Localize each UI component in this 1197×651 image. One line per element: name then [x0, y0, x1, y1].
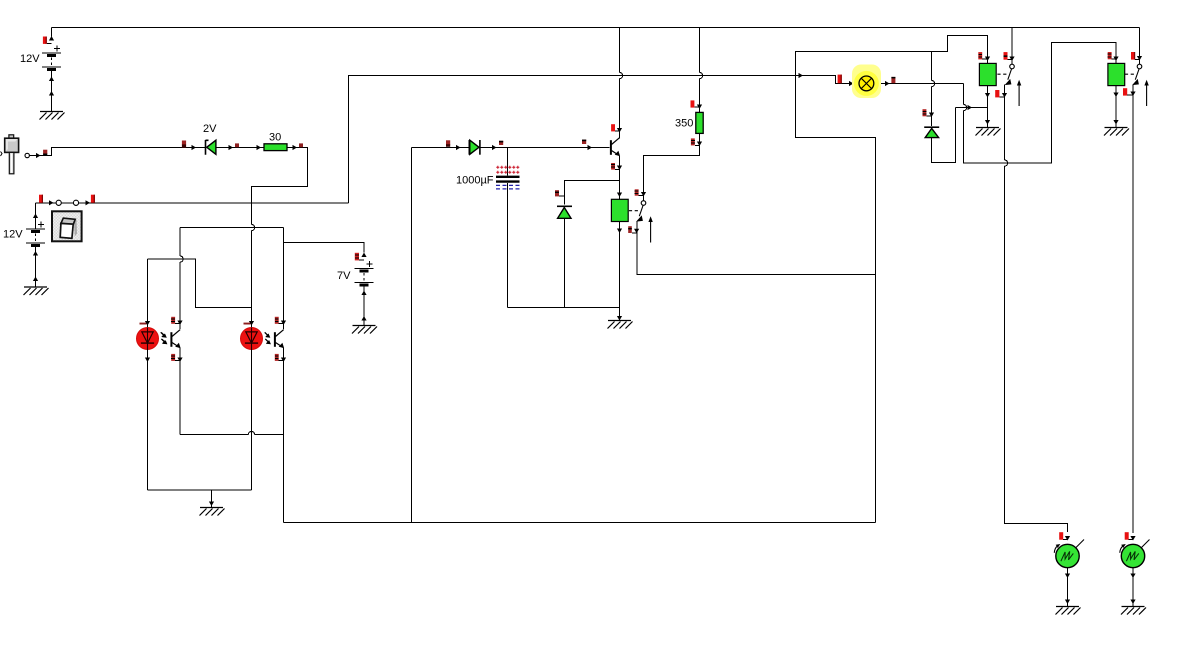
resistor R2 350	[696, 112, 703, 133]
wire: emitter bus to base feeder riser	[284, 522, 876, 524]
current arrow	[145, 358, 150, 363]
wire: PT2 collector drop	[283, 228, 285, 330]
current arrow	[49, 77, 54, 82]
wire: battery B1 negative to ground	[51, 71, 53, 112]
probe red (lamp left)	[838, 75, 842, 84]
current arrow	[1130, 536, 1135, 541]
current arrow	[281, 358, 286, 363]
diode D2 (pointing right)	[469, 140, 480, 155]
probe dark red small	[299, 143, 303, 147]
probe striped (zener2)	[923, 109, 932, 116]
ground (motor2)	[1121, 607, 1146, 615]
wire: R350 from top rail with hop over y75	[700, 28, 703, 113]
current arrow	[1113, 57, 1118, 62]
wire: rail riser to y75 feeder	[349, 76, 796, 203]
open terminal circle (hammer row)	[25, 153, 29, 157]
hammer input device	[1, 135, 19, 174]
relay coil RL2	[979, 63, 996, 85]
wire: battery B2 positive up to rail	[35, 203, 37, 229]
probe striped (7V)	[355, 253, 364, 261]
relay coil RL3	[1108, 63, 1125, 85]
wire: motor2 to ground	[1132, 568, 1134, 607]
current arrow	[209, 502, 214, 507]
current arrow	[617, 316, 622, 321]
wire: resistor 30 to LED branch	[252, 148, 308, 203]
capacitor C1 1000uF	[496, 148, 520, 308]
wire: lamp row down to relay3 feeder with hop over y107	[964, 43, 1117, 164]
svg-text:350: 350	[675, 118, 693, 130]
probe red (relay3 contact)	[1123, 88, 1133, 95]
wire: zener2 bottom link	[932, 108, 956, 163]
svg-text:12V: 12V	[3, 229, 23, 241]
current arrow	[885, 81, 890, 86]
zener diode Z1	[557, 206, 572, 218]
probe dark red (hammer row)	[43, 150, 47, 155]
wire: Q1 emitter down to coil1	[619, 156, 621, 200]
current arrow (battery B1 top)	[49, 36, 54, 41]
svg-text:30: 30	[269, 132, 281, 144]
current arrow	[985, 57, 990, 62]
probe striped (coil2 top)	[978, 52, 987, 59]
switch terminal circle	[56, 200, 61, 205]
current arrow	[49, 200, 54, 205]
probe striped (PT2 collector)	[275, 317, 284, 324]
ground (coil3)	[1104, 128, 1129, 136]
current arrow	[361, 316, 366, 321]
current arrow	[985, 120, 990, 125]
wire: LED cathodes to ground rail	[148, 489, 252, 491]
diode D1 2V (pointing left)	[206, 140, 216, 155]
wire: ground rail under coil1	[508, 307, 620, 309]
current arrow	[177, 321, 182, 326]
battery B1 12V	[42, 46, 61, 70]
current arrow	[1130, 92, 1135, 97]
probe red (motor2)	[1125, 532, 1133, 540]
wire: LED2 drop with hop over y227 (junction at rail)	[252, 203, 255, 328]
current arrow	[617, 193, 622, 198]
wire: battery B2 rail with switch	[36, 202, 349, 204]
current arrow (junction)	[799, 73, 804, 78]
wire: feeder up-branch to relay2 coil	[796, 36, 988, 76]
wire: PT2 emitter down	[283, 348, 285, 523]
current arrow	[281, 321, 286, 326]
probe striped (R350 bottom)	[691, 138, 700, 145]
probe red (rail right)	[91, 195, 95, 203]
probe striped (coil3 top)	[1108, 52, 1116, 59]
current arrow	[1137, 56, 1142, 61]
ground (motor1)	[1056, 607, 1081, 615]
ground (battery B1)	[40, 112, 65, 120]
zener diode Z2	[924, 127, 939, 137]
wire: battery B1 positive to top rail	[51, 28, 53, 37]
wire: motor1 to ground	[1067, 568, 1069, 607]
wire: PT collectors link	[180, 227, 284, 229]
svg-text:1000µF: 1000µF	[456, 175, 494, 187]
current arrow	[192, 145, 197, 150]
wire: LED1 cathode down	[147, 350, 149, 491]
probe striped (Q1 emitter)	[611, 163, 619, 170]
probe red (R350 top)	[691, 100, 700, 107]
current arrow	[1002, 93, 1007, 98]
relay coil RL1	[611, 199, 628, 221]
wire: LED1 feeder	[148, 259, 252, 308]
probe red (motor1)	[1059, 532, 1067, 540]
wire: PT emitters link with hop over LED2 wire	[180, 432, 284, 435]
motor M1	[1054, 540, 1084, 568]
wire: coil3 to ground	[1115, 86, 1117, 127]
probe dark red (zener1)	[555, 190, 565, 196]
current arrow	[1065, 574, 1070, 579]
wire: Q1 collector riser with hop over y75	[620, 28, 623, 139]
probe striped (PT1 collector)	[171, 317, 180, 324]
ground (7V battery)	[352, 326, 377, 334]
transistor Q1 npn	[611, 138, 620, 157]
motor M2	[1120, 540, 1150, 568]
current arrow	[456, 145, 461, 150]
current arrow	[1065, 600, 1070, 605]
wire: diode to resistor 30	[216, 147, 264, 149]
current arrow	[257, 145, 262, 150]
current arrow	[1065, 536, 1070, 541]
wire: relay2 contact down to motor1 with hop over y163	[1005, 85, 1068, 533]
wire: feeder down-branch to big loop	[796, 76, 876, 523]
probe dark red small	[235, 143, 239, 147]
wire: relay3 contact down to motor2	[1132, 85, 1134, 534]
svg-text:7V: 7V	[337, 270, 351, 282]
probe dark red	[446, 140, 450, 147]
current arrow	[229, 145, 234, 150]
probe red (relay2 contact)	[995, 90, 1004, 97]
battery B2 12V	[26, 222, 45, 246]
svg-text:12V: 12V	[20, 53, 40, 65]
current arrow	[1113, 93, 1118, 98]
current arrow	[1113, 120, 1118, 125]
ground (coil2)	[976, 128, 1001, 136]
current arrow	[634, 229, 639, 234]
probe striped (PT1 emitter)	[171, 354, 180, 361]
svg-text:2V: 2V	[203, 123, 217, 135]
probe red (relay2 common)	[1004, 52, 1013, 60]
rocker switch icon	[52, 211, 82, 241]
ground (battery B2)	[24, 287, 49, 295]
current arrow (LED1 in)	[145, 321, 150, 326]
probe red (Q1 collector)	[611, 124, 619, 131]
phototransistor PT1	[161, 330, 180, 349]
current arrow	[968, 105, 973, 110]
current arrow	[617, 166, 622, 171]
wire: battery B2 negative to ground	[35, 247, 37, 287]
wire: relay2 common from top rail	[1011, 28, 1013, 65]
resistor R1 30	[264, 144, 287, 151]
current arrow	[641, 192, 646, 197]
probe dark red	[499, 141, 503, 145]
wire: base feeder riser	[411, 148, 413, 523]
wire: 7V negative to ground	[363, 286, 365, 325]
probe striped (relay1 common)	[635, 189, 644, 195]
relay switch SW1	[629, 201, 653, 243]
current arrow	[33, 277, 38, 282]
current arrow	[361, 291, 366, 296]
wire: zener to ground rail	[564, 219, 566, 308]
current arrow	[492, 145, 497, 150]
current arrow	[1009, 57, 1014, 62]
current arrow	[293, 145, 298, 150]
relay switch SW3	[1125, 64, 1149, 106]
wire: PT1 collector drop with hop over y259	[180, 228, 183, 330]
current arrow	[617, 229, 622, 234]
wire: LED2 cathode down	[251, 350, 253, 491]
ground (LED rail)	[200, 508, 225, 516]
current arrow	[697, 105, 702, 110]
probe striped (PT2 emitter)	[275, 354, 284, 361]
current arrow	[588, 145, 593, 150]
wire: ground stub	[211, 490, 213, 507]
probe dark red (base)	[582, 140, 586, 144]
current arrow	[617, 128, 622, 133]
current arrow	[985, 93, 990, 98]
switch terminal circle	[73, 200, 78, 205]
probe dark red (lamp right)	[891, 77, 895, 83]
current arrow	[177, 358, 182, 363]
battery B3 7V	[355, 261, 374, 285]
current arrow	[49, 91, 54, 96]
wire: y75 feeder junction to lamp row	[796, 76, 964, 84]
wire: hammer row to 2V diode row	[30, 148, 206, 156]
wire: base row	[412, 147, 610, 149]
probe red (battery B1 top)	[43, 37, 52, 44]
probe red (relay3 common)	[1131, 52, 1140, 60]
ground (coil1)	[608, 321, 633, 329]
current arrow	[1130, 600, 1135, 605]
wire: R350 to relay1 common	[644, 133, 700, 201]
wire: coil2 bottom tap	[956, 107, 988, 109]
wire: relay1 contact down and across	[637, 221, 876, 275]
current arrow	[36, 153, 41, 158]
wire: zener branch tap	[565, 181, 620, 205]
wire: coil2 to ground	[987, 86, 989, 127]
LED L2 red	[241, 323, 271, 350]
probe dark red	[182, 141, 186, 148]
wire: 7V battery feed to PT collectors	[284, 243, 365, 253]
lamp (lit)	[852, 65, 881, 99]
probe red (rail left)	[39, 195, 43, 203]
current arrow	[33, 251, 38, 256]
wire: zener2 tap riser with hop over lamp row	[932, 52, 935, 127]
current arrow (LED2 in)	[249, 321, 254, 326]
current arrow	[929, 113, 934, 118]
relay switch SW2	[997, 64, 1021, 106]
wire: coil1 to ground	[619, 222, 621, 321]
current arrow	[86, 200, 91, 205]
wire: +12V top rail across page	[52, 27, 1140, 29]
phototransistor PT2	[265, 330, 284, 349]
probe dark red (relay1 contact)	[628, 226, 637, 233]
current arrow	[697, 142, 702, 147]
LED L1 red	[137, 323, 167, 350]
current arrow	[33, 214, 38, 219]
wire: PT1 emitter down	[179, 348, 181, 435]
wire: relay3 common from top rail	[1139, 28, 1141, 65]
current arrow	[849, 81, 854, 86]
current arrow	[361, 253, 366, 258]
wire: LED1 anode drop	[147, 259, 149, 328]
current arrow	[1130, 574, 1135, 579]
